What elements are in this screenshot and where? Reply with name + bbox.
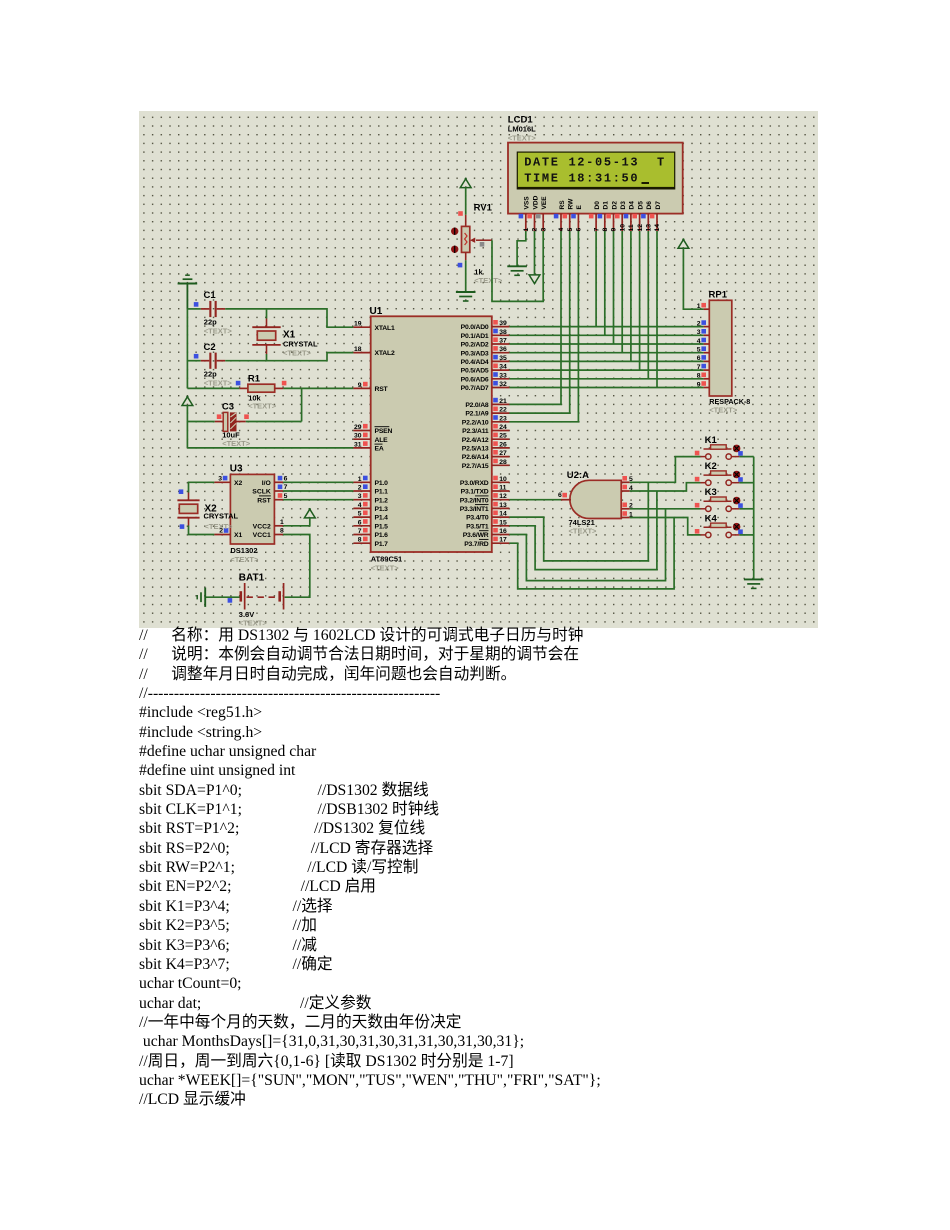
U1 pin 38 P0.1/AD1 <box>461 329 510 340</box>
svg-text:12: 12 <box>499 493 507 500</box>
LCD pin 2 VDD <box>527 195 539 231</box>
svg-text:3: 3 <box>218 475 222 482</box>
potentiometer RV1 <box>451 188 503 292</box>
LCD pin 13 D6 <box>641 201 653 232</box>
svg-text:18: 18 <box>354 346 362 353</box>
power arrow (RV1 top) <box>460 179 471 188</box>
RP1 pin 1 <box>697 303 710 310</box>
bus wire P0.0 row to RP1 pin 2 <box>509 326 703 328</box>
svg-text:31: 31 <box>354 441 362 448</box>
power arrow (VCC, left) <box>182 397 193 406</box>
U2:A pin 5 input <box>621 476 633 483</box>
svg-text:26: 26 <box>499 441 507 448</box>
U1 pin 13 P3.3/INT1 <box>460 502 510 513</box>
svg-text:RST: RST <box>375 386 389 393</box>
U1 pin 9 RST <box>353 382 388 393</box>
svg-text:ALE: ALE <box>375 437 389 444</box>
push button K1 <box>695 435 754 459</box>
svg-text:PSEN: PSEN <box>375 428 393 435</box>
svg-text:P2.3/A11: P2.3/A11 <box>462 428 489 435</box>
U1 pin 23 P2.2/A10 <box>462 415 510 426</box>
RP1 pin 5 <box>697 346 710 353</box>
U3 pin 8 VCC1 <box>253 528 284 540</box>
svg-text:19: 19 <box>354 321 362 328</box>
U1 pin 36 P0.3/AD3 <box>461 346 510 357</box>
svg-text:P1.4: P1.4 <box>375 515 389 522</box>
resistor pack RP1 RESPACK-8 <box>709 290 751 415</box>
wire R1/RST junction down to C3 <box>301 388 303 421</box>
svg-text:U3: U3 <box>230 464 243 475</box>
svg-text:P3.0/RXD: P3.0/RXD <box>460 480 489 487</box>
LCD1 LM016L display <box>508 114 683 213</box>
svg-text:38: 38 <box>499 329 507 336</box>
U1 pin 22 P2.1/A9 <box>465 407 509 418</box>
U2:A pin 4 input <box>621 485 633 492</box>
svg-text:VCC2: VCC2 <box>253 524 271 531</box>
ground (RV1 bottom) <box>456 292 476 301</box>
svg-text:1: 1 <box>280 519 284 526</box>
svg-text:<TEXT>: <TEXT> <box>204 327 233 336</box>
svg-text:P3.6/WR: P3.6/WR <box>463 532 489 539</box>
svg-text:U2:A: U2:A <box>567 470 589 481</box>
svg-text:4: 4 <box>558 228 565 232</box>
svg-text:D7: D7 <box>655 201 662 210</box>
U1 pin 7 P1.6 <box>353 528 388 539</box>
svg-text:36: 36 <box>499 346 507 353</box>
svg-text:15: 15 <box>499 519 507 526</box>
svg-text:XTAL2: XTAL2 <box>375 350 395 357</box>
svg-text:<TEXT>: <TEXT> <box>204 378 233 387</box>
power arrow (RP1) <box>678 240 689 249</box>
U3 pin 2 X1 <box>214 528 242 540</box>
U1 pin 6 P1.5 <box>353 519 388 530</box>
svg-text:P1.1: P1.1 <box>375 489 389 496</box>
LCD pin 1 VSS <box>519 196 531 232</box>
svg-text:3: 3 <box>697 329 701 336</box>
svg-text:7: 7 <box>697 364 701 371</box>
wires U3 I/O,SCLK,RST to U1 P1.0-P1.2 <box>283 481 353 483</box>
svg-text:37: 37 <box>499 338 507 345</box>
ground (LCD VSS) <box>507 266 527 275</box>
wire C1 to XTAL1 <box>225 309 353 327</box>
bus wire P0.3 row to RP1 pin 5 <box>509 352 703 354</box>
svg-text:13: 13 <box>499 502 507 509</box>
U3 pin 1 VCC2 <box>253 519 284 531</box>
gnd bus vertical (C1/C2/R1) <box>186 309 188 389</box>
svg-text:22p: 22p <box>204 369 217 378</box>
U1 pin 28 P2.7/A15 <box>462 459 510 470</box>
svg-text:LM016L: LM016L <box>508 125 536 134</box>
wire RP1 pin1 to power <box>683 248 703 309</box>
svg-text:9: 9 <box>358 382 362 389</box>
svg-text:35: 35 <box>499 355 507 362</box>
U2:A pin 6 output <box>558 492 571 500</box>
ground (left of BAT1, rotated) <box>197 588 205 607</box>
svg-text:1: 1 <box>697 303 701 310</box>
source code listing <box>139 626 939 1110</box>
crystal X2 <box>177 482 238 534</box>
U1 AT89C51 microcontroller body <box>370 306 492 573</box>
svg-text:22p: 22p <box>204 318 217 327</box>
svg-text:27: 27 <box>499 450 507 457</box>
svg-text:P1.6: P1.6 <box>375 532 389 539</box>
U1 pin 25 P2.4/A12 <box>462 433 510 444</box>
svg-text:14: 14 <box>654 224 661 232</box>
LCD pin 6 E <box>571 205 583 232</box>
svg-text:AT89C51: AT89C51 <box>371 555 403 564</box>
svg-text:P2.6/A14: P2.6/A14 <box>462 454 489 461</box>
bus wire P0.6 row to RP1 pin 8 <box>509 378 703 380</box>
wire VCC1 to BAT1 <box>283 535 310 598</box>
U1 pin 39 P0.0/AD0 <box>461 320 510 331</box>
LCD pin 3 VEE <box>536 196 548 232</box>
svg-text:D3: D3 <box>620 201 627 210</box>
net K1: gate pin5 / K1 / P3.4 <box>509 457 700 561</box>
svg-text:8: 8 <box>280 528 284 535</box>
U2:A pin 2 input <box>621 503 633 510</box>
svg-text:D0: D0 <box>594 201 601 210</box>
svg-text:D5: D5 <box>637 201 644 210</box>
svg-text:DATE 12-05-13 T: DATE 12-05-13 T <box>524 155 666 169</box>
resistor R1 <box>187 374 353 411</box>
svg-text:21: 21 <box>499 398 507 405</box>
bus wire P0.7 row to RP1 pin 9 <box>509 387 703 389</box>
svg-text:P1.0: P1.0 <box>375 480 389 487</box>
U1 pin 16 P3.6/WR <box>463 528 510 539</box>
RP1 pin 6 <box>697 355 710 362</box>
svg-text:1: 1 <box>358 476 362 483</box>
LCD pin 8 D1 <box>598 201 610 232</box>
svg-text:25: 25 <box>499 433 507 440</box>
svg-text:VEE: VEE <box>541 196 548 210</box>
svg-text:<TEXT>: <TEXT> <box>222 439 251 448</box>
svg-text:<TEXT>: <TEXT> <box>569 527 598 536</box>
svg-text:2: 2 <box>358 485 362 492</box>
RP1 pin 7 <box>697 364 710 371</box>
svg-text:I/O: I/O <box>262 480 271 487</box>
svg-text:P0.5/AD5: P0.5/AD5 <box>461 368 489 375</box>
svg-text:2: 2 <box>532 228 539 232</box>
svg-text:D1: D1 <box>603 201 610 210</box>
U1 pin 31 EA <box>353 441 383 452</box>
svg-text:3: 3 <box>540 228 547 232</box>
U1 pin 4 P1.3 <box>353 502 388 513</box>
svg-text:11: 11 <box>499 485 506 492</box>
bus wire P0.2 row to RP1 pin 4 <box>509 343 703 345</box>
svg-text:P0.4/AD4: P0.4/AD4 <box>461 359 489 366</box>
net K3: gate pin2 / K3 / P3.6 <box>509 509 700 581</box>
svg-text:7: 7 <box>284 484 288 491</box>
LCD RS wire to P2.0 <box>509 231 561 404</box>
net K2: gate pin4 / K2 / P3.5 <box>509 483 700 570</box>
svg-text:2: 2 <box>697 320 701 327</box>
svg-text:<TEXT>: <TEXT> <box>205 522 234 531</box>
svg-text:32: 32 <box>499 381 507 388</box>
svg-text:6: 6 <box>697 355 701 362</box>
LCD pin 11 D4 <box>624 201 636 232</box>
svg-text:7: 7 <box>358 528 362 535</box>
push button K2 <box>695 461 754 485</box>
svg-text:P0.3/AD3: P0.3/AD3 <box>461 350 489 357</box>
svg-text:28: 28 <box>499 459 507 466</box>
U1 pin 5 P1.4 <box>353 511 388 522</box>
LCD pin 14 D7 <box>650 201 662 232</box>
svg-text:P3.7/RD: P3.7/RD <box>464 541 489 548</box>
wire C2 to XTAL2 <box>225 353 353 361</box>
wire VCC2 to power <box>283 518 310 526</box>
svg-text:X2: X2 <box>234 480 243 487</box>
LCD pin 10 D3 <box>615 201 627 232</box>
U1 pin 1 P1.0 <box>353 476 388 487</box>
svg-text:<TEXT>: <TEXT> <box>230 555 259 564</box>
U3 pin 7 SCLK <box>252 484 287 496</box>
svg-text:P2.4/A12: P2.4/A12 <box>462 437 489 444</box>
ground (top-left, above C1) <box>178 275 198 309</box>
U1 pin 14 P3.4/T0 <box>466 511 509 522</box>
svg-text:7: 7 <box>593 228 600 232</box>
svg-text:9: 9 <box>697 381 701 388</box>
U3 pin 3 X2 <box>214 475 242 487</box>
U1 pin 2 P1.1 <box>353 484 388 495</box>
RV1 wiper arrow and net to LCD VEE <box>470 231 543 301</box>
battery BAT1 <box>206 573 284 628</box>
capacitor C3 (10uF) <box>187 402 301 448</box>
svg-text:P0.1/AD1: P0.1/AD1 <box>461 333 489 340</box>
U1 pin 29 PSEN <box>353 424 392 435</box>
U1 pin 18 XTAL2 <box>353 346 395 357</box>
LCD pin 4 RS <box>554 200 566 232</box>
capacitor C2 <box>187 342 232 387</box>
U3 pin 6 I/O <box>262 475 288 487</box>
LCD D4 wire down to P0.4 bus row <box>630 231 632 361</box>
svg-text:8: 8 <box>358 537 362 544</box>
LCD pin 12 D5 <box>632 201 644 232</box>
svg-text:DS1302: DS1302 <box>230 546 257 555</box>
LCD D5 wire down to P0.5 bus row <box>639 231 641 370</box>
svg-text:<TEXT>: <TEXT> <box>709 406 738 415</box>
svg-text:29: 29 <box>354 424 362 431</box>
svg-text:XTAL1: XTAL1 <box>375 325 395 332</box>
svg-text:23: 23 <box>499 415 507 422</box>
LCD D6 wire down to P0.6 bus row <box>647 231 649 379</box>
RP1 pin 3 <box>697 329 710 336</box>
svg-text:8: 8 <box>602 228 609 232</box>
svg-text:24: 24 <box>499 424 507 431</box>
svg-text:P0.2/AD2: P0.2/AD2 <box>461 342 489 349</box>
svg-text:BAT1: BAT1 <box>239 573 265 584</box>
svg-text:VCC1: VCC1 <box>253 532 271 539</box>
svg-text:5: 5 <box>697 347 701 354</box>
svg-text:P2.7/A15: P2.7/A15 <box>462 463 489 470</box>
svg-text:P3.5/T1: P3.5/T1 <box>466 523 489 530</box>
U1 pin 37 P0.2/AD2 <box>461 337 510 348</box>
svg-text:RS: RS <box>559 200 566 210</box>
svg-text:3: 3 <box>358 493 362 500</box>
U1 pin 12 P3.2/INT0 <box>460 493 510 504</box>
svg-text:P1.7: P1.7 <box>375 541 389 548</box>
svg-text:D6: D6 <box>646 201 653 210</box>
EA rail <box>187 447 353 449</box>
svg-text:<TEXT>: <TEXT> <box>474 276 503 285</box>
svg-text:6: 6 <box>358 519 362 526</box>
RP1 pin 2 <box>697 320 710 327</box>
bus wire P0.5 row to RP1 pin 7 <box>509 369 703 371</box>
svg-text:34: 34 <box>499 364 507 371</box>
LCD VDD wire + power-down arrow <box>534 231 536 274</box>
LCD pin 7 D0 <box>589 201 601 232</box>
svg-text:33: 33 <box>499 372 507 379</box>
bus wire P0.4 row to RP1 pin 6 <box>509 360 703 362</box>
svg-text:P0.7/AD7: P0.7/AD7 <box>461 385 489 392</box>
push button K3 <box>695 487 754 511</box>
U1 pin 32 P0.7/AD7 <box>461 381 510 392</box>
U1 pin 26 P2.5/A13 <box>462 441 510 452</box>
U1 pin 33 P0.6/AD6 <box>461 372 510 383</box>
svg-text:VDD: VDD <box>532 195 539 209</box>
svg-text:SCLK: SCLK <box>252 489 271 496</box>
svg-text:6: 6 <box>558 492 562 499</box>
svg-text:U1: U1 <box>370 306 383 317</box>
svg-text:13: 13 <box>646 224 653 232</box>
VCC segment down to EA rail <box>186 406 188 448</box>
svg-text:1: 1 <box>523 228 530 232</box>
svg-text:C3: C3 <box>222 402 234 413</box>
svg-text:P2.2/A10: P2.2/A10 <box>462 419 489 426</box>
U2:A pin 1 input <box>621 511 633 518</box>
svg-text:X1: X1 <box>234 532 243 539</box>
svg-text:9: 9 <box>611 228 618 232</box>
svg-text:5: 5 <box>358 511 362 518</box>
svg-text:6: 6 <box>284 475 288 482</box>
svg-text:11: 11 <box>628 224 635 231</box>
svg-text:C2: C2 <box>204 342 216 353</box>
U1 pin 3 P1.2 <box>353 493 388 504</box>
svg-text:5: 5 <box>284 493 288 500</box>
svg-text:P3.4/T0: P3.4/T0 <box>466 515 489 522</box>
svg-text:C1: C1 <box>204 290 217 301</box>
U1 pin 35 P0.4/AD4 <box>461 355 510 366</box>
svg-text:TIME 18:31:50: TIME 18:31:50 <box>524 171 639 185</box>
svg-text:P1.3: P1.3 <box>375 506 389 513</box>
svg-text:30: 30 <box>354 433 362 440</box>
svg-text:P3.3/INT1: P3.3/INT1 <box>460 506 489 513</box>
LCD D2 wire down to P0.2 bus row <box>613 231 615 344</box>
svg-text:CRYSTAL: CRYSTAL <box>283 340 318 349</box>
svg-text:8: 8 <box>697 373 701 380</box>
LCD pin 5 RW <box>563 198 575 232</box>
U1 pin 10 P3.0/RXD <box>460 476 510 487</box>
svg-text:22: 22 <box>499 407 507 414</box>
svg-text:<TEXT>: <TEXT> <box>508 133 537 142</box>
svg-text:16: 16 <box>499 528 507 535</box>
svg-text:10: 10 <box>499 476 507 483</box>
svg-text:EA: EA <box>375 446 384 453</box>
svg-text:12: 12 <box>637 224 644 232</box>
LCD VSS wire to ground <box>517 231 526 266</box>
svg-text:E: E <box>576 205 583 210</box>
LCD E wire to P2.2 <box>509 231 578 422</box>
svg-text:RP1: RP1 <box>709 290 728 301</box>
svg-text:D4: D4 <box>629 201 636 210</box>
svg-text:RST: RST <box>257 497 271 504</box>
LCD RW wire to P2.1 <box>509 231 569 413</box>
svg-text:P0.0/AD0: P0.0/AD0 <box>461 324 489 331</box>
RP1 pin 4 <box>697 338 710 345</box>
RP1 pin 9 <box>697 381 710 388</box>
U1 pin 17 P3.7/RD <box>464 537 509 548</box>
op-amp style AND gate U2:A 74LS21 (mirrored) <box>567 470 621 535</box>
net K4: gate pin1 / K4 / P3.7 <box>509 518 700 589</box>
U1 pin 15 P3.5/T1 <box>466 519 509 530</box>
svg-text:RW: RW <box>568 198 575 210</box>
power arrow (U3 VCC2) <box>304 509 315 518</box>
LCD pin 9 D2 <box>606 201 618 232</box>
svg-text:R1: R1 <box>248 374 261 385</box>
schematic canvas <box>139 111 818 628</box>
svg-text:4: 4 <box>358 502 362 509</box>
svg-text:P2.1/A9: P2.1/A9 <box>465 411 489 418</box>
LCD D0 wire down to P0.0 bus row <box>595 231 597 327</box>
svg-text:VSS: VSS <box>524 196 531 210</box>
svg-text:<TEXT>: <TEXT> <box>283 349 312 358</box>
RP1 pin 8 <box>697 373 710 380</box>
svg-text:14: 14 <box>499 511 507 518</box>
svg-text:10: 10 <box>619 224 626 232</box>
svg-text:P0.6/AD6: P0.6/AD6 <box>461 376 489 383</box>
svg-text:RV1: RV1 <box>474 203 493 214</box>
svg-text:P2.0/A8: P2.0/A8 <box>465 402 489 409</box>
svg-text:17: 17 <box>499 537 507 544</box>
svg-text:4: 4 <box>697 338 701 345</box>
U1 pin 21 P2.0/A8 <box>465 398 509 409</box>
svg-text:CRYSTAL: CRYSTAL <box>204 511 239 520</box>
svg-text:P2.5/A13: P2.5/A13 <box>462 446 489 453</box>
svg-text:<TEXT>: <TEXT> <box>371 564 400 573</box>
U3 DS1302 body <box>230 464 275 564</box>
bus wire P0.1 row to RP1 pin 3 <box>509 334 703 336</box>
U1 pin 8 P1.7 <box>353 537 388 548</box>
svg-text:P3.2/INT0: P3.2/INT0 <box>460 497 489 504</box>
svg-text:P1.2: P1.2 <box>375 497 389 504</box>
svg-text:<TEXT>: <TEXT> <box>248 402 277 411</box>
svg-text:39: 39 <box>499 320 507 327</box>
U1 pin 11 P3.1/TXD <box>461 484 510 495</box>
svg-text:P3.1/TXD: P3.1/TXD <box>461 489 489 496</box>
capacitor C1 <box>187 290 232 335</box>
crystal X1 <box>252 309 318 361</box>
svg-text:D2: D2 <box>611 201 618 210</box>
wire U1 P3.2 to gate output <box>509 499 561 501</box>
svg-text:5: 5 <box>567 228 574 232</box>
U1 pin 24 P2.3/A11 <box>462 424 509 435</box>
push button K4 <box>695 513 754 537</box>
LCD D1 wire down to P0.1 bus row <box>604 231 606 335</box>
U1 pin 19 XTAL1 <box>353 321 395 332</box>
ground (switches) <box>744 579 764 588</box>
U1 pin 34 P0.5/AD5 <box>461 364 510 375</box>
U1 pin 27 P2.6/A14 <box>462 450 510 461</box>
U1 pin 30 ALE <box>353 433 388 444</box>
switches common bus to ground <box>753 457 755 579</box>
LCD D7 wire down to P0.7 bus row <box>656 231 658 388</box>
U3 pin 5 RST <box>257 493 287 505</box>
svg-text:P1.5: P1.5 <box>375 523 389 530</box>
svg-text:6: 6 <box>576 228 583 232</box>
LCD D3 wire down to P0.3 bus row <box>621 231 623 353</box>
